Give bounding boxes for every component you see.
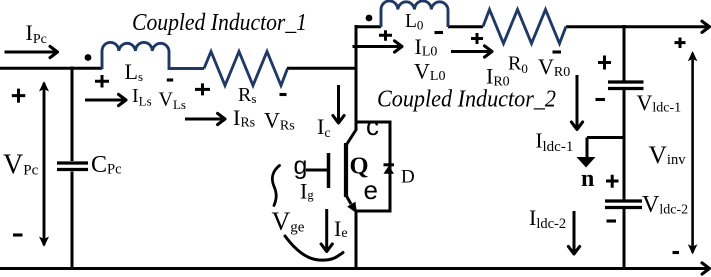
svg-text:VL0: VL0 — [414, 59, 445, 85]
svg-text:e: e — [364, 175, 378, 205]
diode loop wire — [356, 122, 390, 211]
svg-text:Vldc-2: Vldc-2 — [642, 192, 688, 218]
svg-text:n: n — [581, 166, 594, 192]
V_ge curve lower — [285, 236, 343, 260]
svg-text:Ls: Ls — [125, 59, 144, 84]
plus of Ls — [95, 75, 109, 88]
svg-text:L0: L0 — [405, 11, 423, 33]
svg-text:VLs: VLs — [159, 89, 186, 113]
plus of V_Pc — [12, 89, 25, 103]
svg-text:Vldc-1: Vldc-1 — [637, 90, 682, 116]
plus of V_ldc-1 — [598, 56, 611, 70]
current arrow I_Pc — [5, 51, 57, 54]
resistor Rs — [204, 52, 288, 86]
svg-text:Coupled Inductor_1: Coupled Inductor_1 — [132, 10, 307, 36]
svg-text:IL0: IL0 — [415, 34, 438, 60]
wire: mid horizontal from Rs to IGBT rail — [287, 67, 357, 70]
svg-text:R0: R0 — [508, 53, 528, 77]
plus of R0 — [471, 33, 483, 44]
capacitor V_ldc-1 plates — [608, 82, 644, 89]
minus of V_Pc — [13, 233, 23, 236]
current arrow I_Rs — [185, 118, 224, 121]
transistor Q emitter diagonal with arrow — [345, 194, 351, 205]
polarity dot of L0 — [366, 15, 373, 22]
voltage arrow V_inv — [691, 53, 694, 253]
wire: right rail — [623, 25, 626, 270]
wire: top between L0 and R0 — [448, 25, 483, 28]
voltage arrow V_Pc — [43, 83, 46, 245]
wire: mid horizontal left segment — [0, 67, 102, 70]
current arrow I_L0 — [353, 45, 402, 48]
plus of V_ldc-2 — [606, 175, 619, 188]
inductor L0 — [381, 1, 448, 27]
svg-text:g: g — [294, 152, 308, 180]
minus of Rs — [280, 93, 287, 96]
wire: top from rail to L0 — [355, 25, 381, 28]
capacitor V_ldc-2 plates — [605, 201, 642, 208]
current arrow I_Ls — [85, 99, 125, 102]
transistor Q body bar — [344, 143, 348, 197]
current arrow I_R0 — [451, 50, 491, 53]
plus of L0 — [379, 30, 392, 41]
wire: top from R0 to right edge with arrowhead — [566, 25, 709, 28]
svg-text:Ic: Ic — [317, 114, 331, 141]
svg-text:c: c — [366, 111, 379, 141]
svg-text:Vinv: Vinv — [649, 140, 687, 169]
wire: IGBT vertical rail — [355, 25, 358, 270]
current arrow I_e — [325, 209, 328, 251]
svg-text:D: D — [401, 167, 415, 188]
minus of R0 — [553, 50, 562, 53]
svg-text:Vge: Vge — [272, 207, 305, 236]
svg-text:VRs: VRs — [264, 108, 295, 134]
minus of V_ldc-1 — [596, 98, 606, 101]
V_ge squiggle brace upper — [272, 166, 279, 206]
inductor Ls — [102, 42, 204, 69]
svg-text:ILs: ILs — [132, 85, 152, 109]
diode D symbol — [384, 163, 395, 166]
svg-text:IRs: IRs — [233, 105, 255, 131]
transistor Q gate bar — [327, 153, 331, 188]
polarity dot of Ls — [85, 54, 92, 61]
transistor Q gate lead — [306, 169, 327, 172]
minus of L0 — [435, 31, 444, 34]
current arrow I_c — [337, 85, 340, 122]
svg-text:VR0: VR0 — [538, 54, 570, 80]
transistor Q collector diagonal — [345, 129, 357, 147]
svg-text:Coupled Inductor_2: Coupled Inductor_2 — [377, 87, 556, 113]
minus of V_ldc-2 — [607, 219, 617, 222]
minus of Ls — [167, 78, 173, 81]
current arrow I_ldc-2 — [573, 211, 576, 253]
svg-text:VPc: VPc — [3, 150, 39, 181]
wire: node n branch — [587, 138, 624, 158]
capacitor C_Pc plates — [57, 163, 88, 170]
svg-text:CPc: CPc — [91, 152, 122, 178]
plus of V_inv — [675, 38, 686, 49]
svg-text:Ildc-2: Ildc-2 — [529, 205, 566, 232]
svg-text:Ie: Ie — [334, 216, 348, 241]
svg-text:Ildc-1: Ildc-1 — [536, 129, 574, 156]
svg-text:IPc: IPc — [26, 20, 47, 47]
resistor R0 — [483, 10, 566, 44]
wire: left capacitor branch — [71, 67, 74, 271]
plus of Rs — [195, 83, 210, 95]
current arrow I_ldc-1 — [576, 75, 579, 129]
minus of V_inv — [673, 251, 680, 254]
wire: bottom horizontal with arrowhead — [0, 267, 709, 270]
node n terminal marker — [577, 157, 596, 168]
svg-text:Ig: Ig — [300, 179, 314, 204]
